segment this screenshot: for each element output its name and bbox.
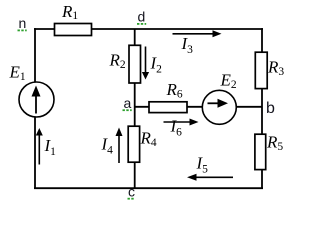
svg-text:n: n	[19, 15, 27, 31]
svg-text:c: c	[128, 184, 135, 200]
node a	[123, 95, 132, 111]
arrow I4	[116, 128, 123, 164]
wire top (n to top-right corner)	[34, 28, 263, 30]
arrow I3	[173, 30, 222, 37]
resistor R1	[55, 24, 92, 36]
source E1	[19, 82, 54, 117]
node n	[18, 15, 27, 31]
wire middle vertical (d to c)	[134, 29, 136, 188]
resistor R4	[128, 126, 139, 162]
wire left (n down to bottom-left corner)	[34, 28, 36, 189]
svg-text:d: d	[138, 9, 146, 25]
resistor R6	[149, 102, 187, 113]
resistor R3	[255, 52, 267, 88]
arrow I6	[164, 119, 199, 126]
source E2	[202, 90, 236, 124]
svg-text:a: a	[124, 95, 132, 111]
arrow I5	[187, 174, 233, 181]
node c	[128, 184, 136, 200]
resistor R2	[129, 45, 141, 83]
resistor R5	[255, 134, 266, 169]
arrow I2	[142, 47, 149, 80]
wire bottom	[34, 187, 263, 189]
wire branch a to b	[135, 106, 262, 108]
svg-text:b: b	[266, 100, 275, 117]
arrow I1	[36, 128, 43, 165]
node d	[137, 9, 146, 25]
wire right (top-right corner down to bottom-right corner)	[261, 28, 263, 189]
